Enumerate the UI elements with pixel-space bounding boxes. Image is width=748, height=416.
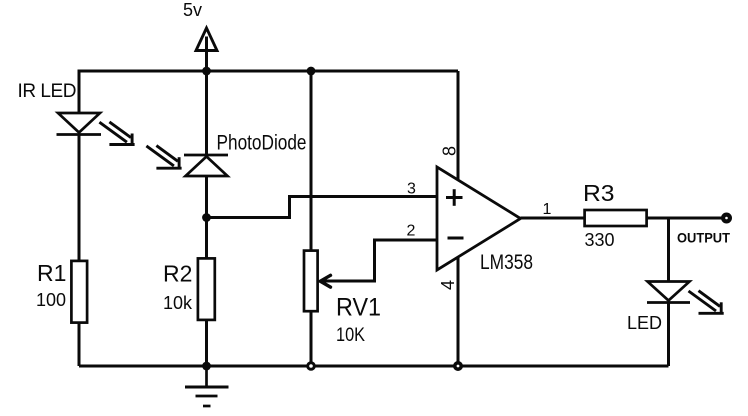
light arrows of LED [689, 291, 724, 314]
svg-text:R3: R3 [583, 180, 615, 206]
plus input marking [446, 189, 463, 206]
wire op-amp output [521, 217, 723, 220]
svg-text:3: 3 [407, 181, 416, 198]
potentiometer RV1 [304, 251, 318, 312]
svg-text:LED: LED [627, 313, 662, 333]
light arrows of IR LED [99, 122, 134, 145]
svg-text:10k: 10k [163, 293, 193, 313]
diode D2 PhotoDiode [184, 155, 228, 176]
svg-text:5v: 5v [183, 0, 202, 20]
wire photodiode top lead [205, 71, 208, 155]
junction at RV1 top [307, 67, 316, 76]
node A junction [202, 213, 211, 222]
ground [185, 366, 229, 406]
minus input marking [448, 237, 464, 240]
wire LED bottom lead [667, 302, 670, 366]
open junction at pin 4 on ground rail [455, 363, 461, 369]
wire pin 8 drop [457, 71, 460, 182]
wire R1 bottom lead [78, 321, 81, 366]
svg-text:2: 2 [407, 223, 416, 240]
svg-text:PhotoDiode: PhotoDiode [217, 132, 307, 155]
resistor R1 [71, 261, 87, 323]
svg-text:IR LED: IR LED [18, 81, 77, 102]
power symbol 5v arrow [196, 28, 217, 51]
wire RV1 wiper to pin 2 [322, 240, 437, 281]
wire RV1 top lead [310, 71, 313, 250]
svg-text:1: 1 [543, 201, 552, 218]
wiper arrow of RV1 [320, 275, 330, 287]
wire LED top lead [667, 218, 670, 282]
light arrows into PhotoDiode [146, 146, 181, 169]
wire top rail [79, 71, 458, 114]
svg-text:8: 8 [439, 146, 459, 156]
junction at 5v rail [202, 67, 211, 76]
diode D3 LED [647, 282, 690, 303]
wire photodiode to node A [205, 176, 208, 258]
wire node A to pin 3 [207, 197, 438, 218]
svg-text:330: 330 [585, 230, 615, 250]
open junction at RV1 bottom [308, 363, 315, 370]
junction at ground rail [202, 362, 211, 371]
wire 5v stem [205, 37, 208, 72]
output terminal [723, 215, 730, 222]
wire bottom rail [79, 365, 669, 368]
wire R2 bottom lead [205, 319, 208, 366]
svg-text:RV1: RV1 [336, 294, 381, 322]
svg-text:10K: 10K [336, 325, 365, 346]
svg-text:LM358: LM358 [480, 251, 533, 274]
svg-text:4: 4 [438, 280, 458, 290]
wire RV1 bottom lead [310, 311, 313, 367]
svg-text:R1: R1 [37, 260, 66, 286]
resistor R3 [585, 210, 647, 226]
wire pin 4 drop [457, 255, 460, 366]
diode D1 IR LED [57, 113, 102, 135]
resistor R2 [198, 258, 215, 320]
svg-text:R2: R2 [163, 261, 192, 287]
op-amp U1 LM358 [437, 167, 521, 270]
svg-text:100: 100 [36, 290, 66, 310]
svg-text:OUTPUT: OUTPUT [677, 231, 731, 246]
wire R1 top lead [78, 134, 81, 262]
